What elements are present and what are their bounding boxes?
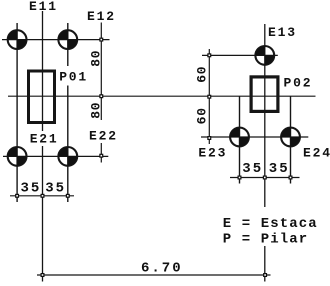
wire: bottom pile row line (left group)	[3, 155, 108, 157]
svg-text:E21: E21	[30, 132, 59, 147]
wire: right group column centerline (E13/P02), gaps at legend	[264, 24, 266, 282]
svg-text:35: 35	[269, 161, 290, 177]
pile E23	[230, 128, 249, 147]
wire: P01 column centerline leader (E11 to E21 to 6.70 line)	[42, 11, 44, 282]
dimension dot at E13 row	[207, 53, 211, 57]
dimension line 35/35 (right group)	[230, 177, 300, 179]
svg-text:80: 80	[88, 102, 103, 119]
pile E11	[8, 30, 27, 49]
svg-text:E23: E23	[198, 146, 227, 161]
dimension dot at centerline (right)	[207, 95, 211, 99]
wire: bottom pile row line (right group)	[201, 136, 308, 138]
dimension dot 6.70 right end	[263, 273, 267, 277]
dimension line 80/80 (left, x=101.3)	[100, 23, 102, 163]
pile E13	[255, 46, 274, 65]
svg-text:60: 60	[195, 107, 210, 124]
svg-text:E24: E24	[303, 146, 330, 161]
svg-text:35: 35	[242, 161, 263, 177]
pile E22	[58, 147, 77, 166]
svg-text:35: 35	[45, 181, 66, 197]
svg-text:P02: P02	[284, 76, 313, 91]
svg-text:E11: E11	[29, 0, 58, 14]
pile E12	[58, 30, 77, 49]
wire: pile axis vertical through E12/E22 column (gap at P01 text)	[67, 23, 69, 202]
svg-text:P = Pilar: P = Pilar	[223, 231, 309, 247]
dimension dot left 35/35 at column center	[41, 194, 45, 198]
wire: pile axis vertical through E24	[290, 96, 292, 183]
dimension origin dot at E12 row	[99, 38, 103, 42]
svg-text:E12: E12	[87, 9, 116, 24]
wire: pile axis vertical through E11/E21 column	[16, 23, 18, 202]
dimension origin dot at centerline	[99, 94, 103, 98]
dimension line 6.70 (bottom)	[37, 274, 271, 276]
svg-text:E22: E22	[89, 129, 118, 144]
dimension dot right 35/35 at column center	[263, 176, 267, 180]
pile E21	[8, 147, 27, 166]
dimension dot at E23/E24 row	[207, 136, 211, 140]
svg-text:35: 35	[21, 181, 42, 197]
dimension dot right 35/35 at pile E23 axis	[238, 176, 242, 180]
svg-text:E = Estaca: E = Estaca	[223, 216, 318, 232]
dimension dot left 35/35 at pile E21 axis	[15, 194, 19, 198]
svg-text:E13: E13	[268, 25, 297, 40]
dimension dot left 35/35 at pile E22 axis	[66, 194, 70, 198]
pile E24	[281, 128, 300, 147]
dimension origin dot at E22 row	[99, 154, 103, 158]
svg-text:6.70: 6.70	[141, 261, 183, 277]
dimension dot right 35/35 at pile E24 axis	[289, 176, 293, 180]
pillar P01 outline	[29, 71, 55, 123]
svg-text:60: 60	[195, 66, 210, 83]
dimension dot 6.70 left end	[41, 273, 45, 277]
pillar P02 outline	[251, 77, 278, 112]
dimension line 60/60 (right, x=209.3)	[208, 49, 210, 144]
dimension line 35/35 (left group)	[10, 195, 74, 197]
wire: top pile row line (left group)	[2, 39, 110, 41]
wire: top pile row line (right group)	[202, 54, 278, 56]
svg-text:P01: P01	[59, 70, 88, 85]
svg-text:80: 80	[88, 50, 103, 67]
wire: horizontal centerline through P01 and P02	[8, 95, 316, 97]
wire: pile axis vertical through E23	[239, 96, 241, 183]
